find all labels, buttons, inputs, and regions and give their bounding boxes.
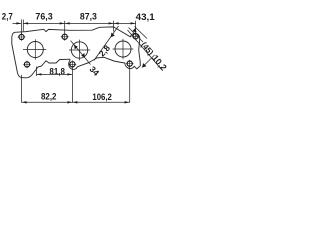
- svg-text:106,2: 106,2: [92, 92, 112, 102]
- svg-text:87,3: 87,3: [80, 12, 97, 22]
- svg-text:2,7: 2,7: [2, 11, 13, 21]
- svg-text:81,8: 81,8: [49, 66, 65, 76]
- svg-text:43,1: 43,1: [136, 12, 155, 22]
- svg-text:2,8: 2,8: [97, 43, 113, 59]
- svg-text:76,3: 76,3: [35, 12, 52, 22]
- svg-text:82,2: 82,2: [41, 92, 57, 102]
- svg-text:34: 34: [88, 64, 102, 78]
- svg-text:10,2: 10,2: [150, 53, 169, 73]
- svg-text:(45): (45): [139, 40, 155, 57]
